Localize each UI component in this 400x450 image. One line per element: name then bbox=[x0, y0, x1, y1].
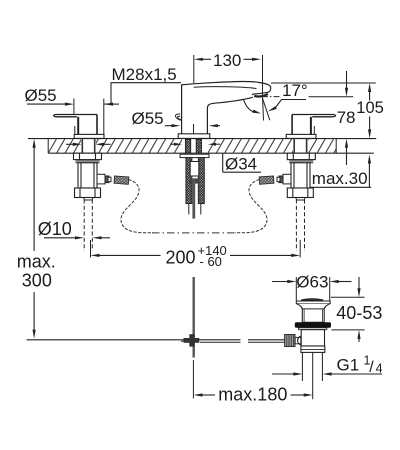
hose middle dash-dot bbox=[152, 232, 236, 234]
svg-text:max.30: max.30 bbox=[312, 169, 368, 188]
svg-text:max.: max. bbox=[17, 252, 56, 272]
right handle escutcheon bbox=[286, 134, 316, 138]
dimension 78 bbox=[337, 71, 356, 165]
dimension 130 bbox=[194, 51, 263, 99]
dimension D10 bbox=[38, 219, 110, 240]
left handle lever bbox=[54, 115, 97, 135]
spout water stream lines bbox=[263, 99, 270, 121]
spout outlet height reference line bbox=[309, 96, 354, 98]
linkage horizontal rod bbox=[27, 339, 241, 341]
label D34 bbox=[223, 153, 261, 173]
left handle escutcheon bbox=[74, 134, 104, 138]
deck hole arrows center bbox=[170, 143, 220, 146]
center threaded shank right wall bbox=[198, 158, 204, 204]
right valve washers bbox=[289, 161, 313, 163]
svg-text:Ø55: Ø55 bbox=[132, 109, 164, 128]
drain brim plate bbox=[296, 301, 330, 304]
left braided hose section bbox=[114, 176, 129, 184]
right valve body bbox=[291, 163, 310, 188]
spout top reference line bbox=[271, 82, 376, 84]
right braided hose section bbox=[259, 176, 274, 184]
svg-text:M28x1,5: M28x1,5 bbox=[112, 65, 177, 84]
right handle lever bbox=[292, 115, 335, 135]
dimension max.300 bbox=[17, 139, 56, 339]
center mounting studs in deck hole bbox=[185, 139, 201, 153]
label max.30 bbox=[310, 155, 371, 188]
dimension max.180 bbox=[193, 360, 312, 405]
left valve locknut bbox=[74, 153, 102, 159]
linkage knob knurled bbox=[285, 335, 301, 347]
left valve outlet fitting bbox=[97, 174, 111, 184]
pull rod lower bbox=[193, 277, 195, 358]
right valve threaded rod dashed bbox=[296, 200, 304, 252]
left valve threaded rod dashed bbox=[84, 200, 92, 252]
svg-text:max.180: max.180 bbox=[218, 385, 287, 405]
left valve body bbox=[78, 163, 97, 188]
left valve shank in deck bbox=[82, 139, 96, 154]
drain flange lip bbox=[299, 328, 327, 330]
spout pop-up knob bbox=[175, 114, 181, 121]
right flex hose curve bbox=[235, 180, 267, 233]
drain upper cone bbox=[297, 304, 330, 323]
right valve bottom nut bbox=[287, 188, 313, 198]
spout body bbox=[182, 81, 271, 133]
svg-text:Ø10: Ø10 bbox=[38, 219, 72, 239]
svg-text:40-53: 40-53 bbox=[336, 303, 382, 323]
spout inner rod line bbox=[193, 124, 195, 134]
center shank dark block bbox=[189, 178, 199, 183]
left valve bottom nut bbox=[75, 188, 101, 198]
drain tail extension lines bbox=[302, 352, 322, 381]
pull rod upper bbox=[192, 178, 195, 218]
left valve washers bbox=[76, 161, 100, 163]
center shank inner slot bbox=[190, 162, 199, 177]
dimension 17 degrees bbox=[244, 81, 308, 113]
label G1 1/4 bbox=[272, 354, 383, 376]
drain plug cap dark lens bbox=[302, 299, 323, 301]
countertop deck hatched section bbox=[28, 138, 376, 153]
right valve locknut bbox=[287, 153, 315, 159]
right valve shank in deck bbox=[293, 139, 307, 154]
svg-text:G1: G1 bbox=[337, 356, 360, 375]
svg-text:300: 300 bbox=[22, 271, 52, 291]
label M28x1,5 bbox=[111, 65, 182, 104]
drain centerline bbox=[312, 352, 314, 399]
dimension D55 center bbox=[132, 109, 221, 128]
spout base escutcheon bbox=[178, 134, 210, 139]
svg-text:Ø34: Ø34 bbox=[225, 154, 257, 173]
svg-text:130: 130 bbox=[213, 51, 241, 70]
drain seal flange bbox=[295, 322, 331, 328]
dimension D63 bbox=[272, 273, 352, 301]
center shank skirt bbox=[189, 204, 201, 215]
right valve outlet fitting bbox=[277, 174, 291, 184]
right valve rod neck bbox=[296, 198, 306, 201]
center threaded shank left wall bbox=[186, 158, 192, 204]
deck hole arrows left valve bbox=[66, 143, 111, 146]
left valve rod neck bbox=[84, 198, 94, 201]
svg-text:- 60: - 60 bbox=[200, 254, 222, 269]
svg-text:Ø55: Ø55 bbox=[25, 86, 57, 105]
svg-text:/: / bbox=[369, 359, 374, 376]
spout aerator bbox=[254, 94, 268, 97]
linkage clamp bbox=[181, 334, 199, 346]
drain lower body bbox=[298, 330, 325, 346]
dimension 200 +140 -60 bbox=[91, 240, 301, 269]
dimension 105 bbox=[356, 83, 384, 138]
svg-text:200: 200 bbox=[166, 247, 196, 267]
left flex hose curve bbox=[121, 180, 153, 233]
dimension 40-53 bbox=[331, 277, 383, 342]
drain union nut bbox=[301, 346, 325, 352]
svg-text:Ø63: Ø63 bbox=[296, 273, 328, 292]
svg-text:105: 105 bbox=[356, 99, 384, 117]
svg-text:78: 78 bbox=[337, 108, 356, 127]
svg-text:17°: 17° bbox=[282, 81, 308, 100]
center shank washer bbox=[180, 154, 209, 157]
dimension D55 left bbox=[25, 86, 120, 135]
